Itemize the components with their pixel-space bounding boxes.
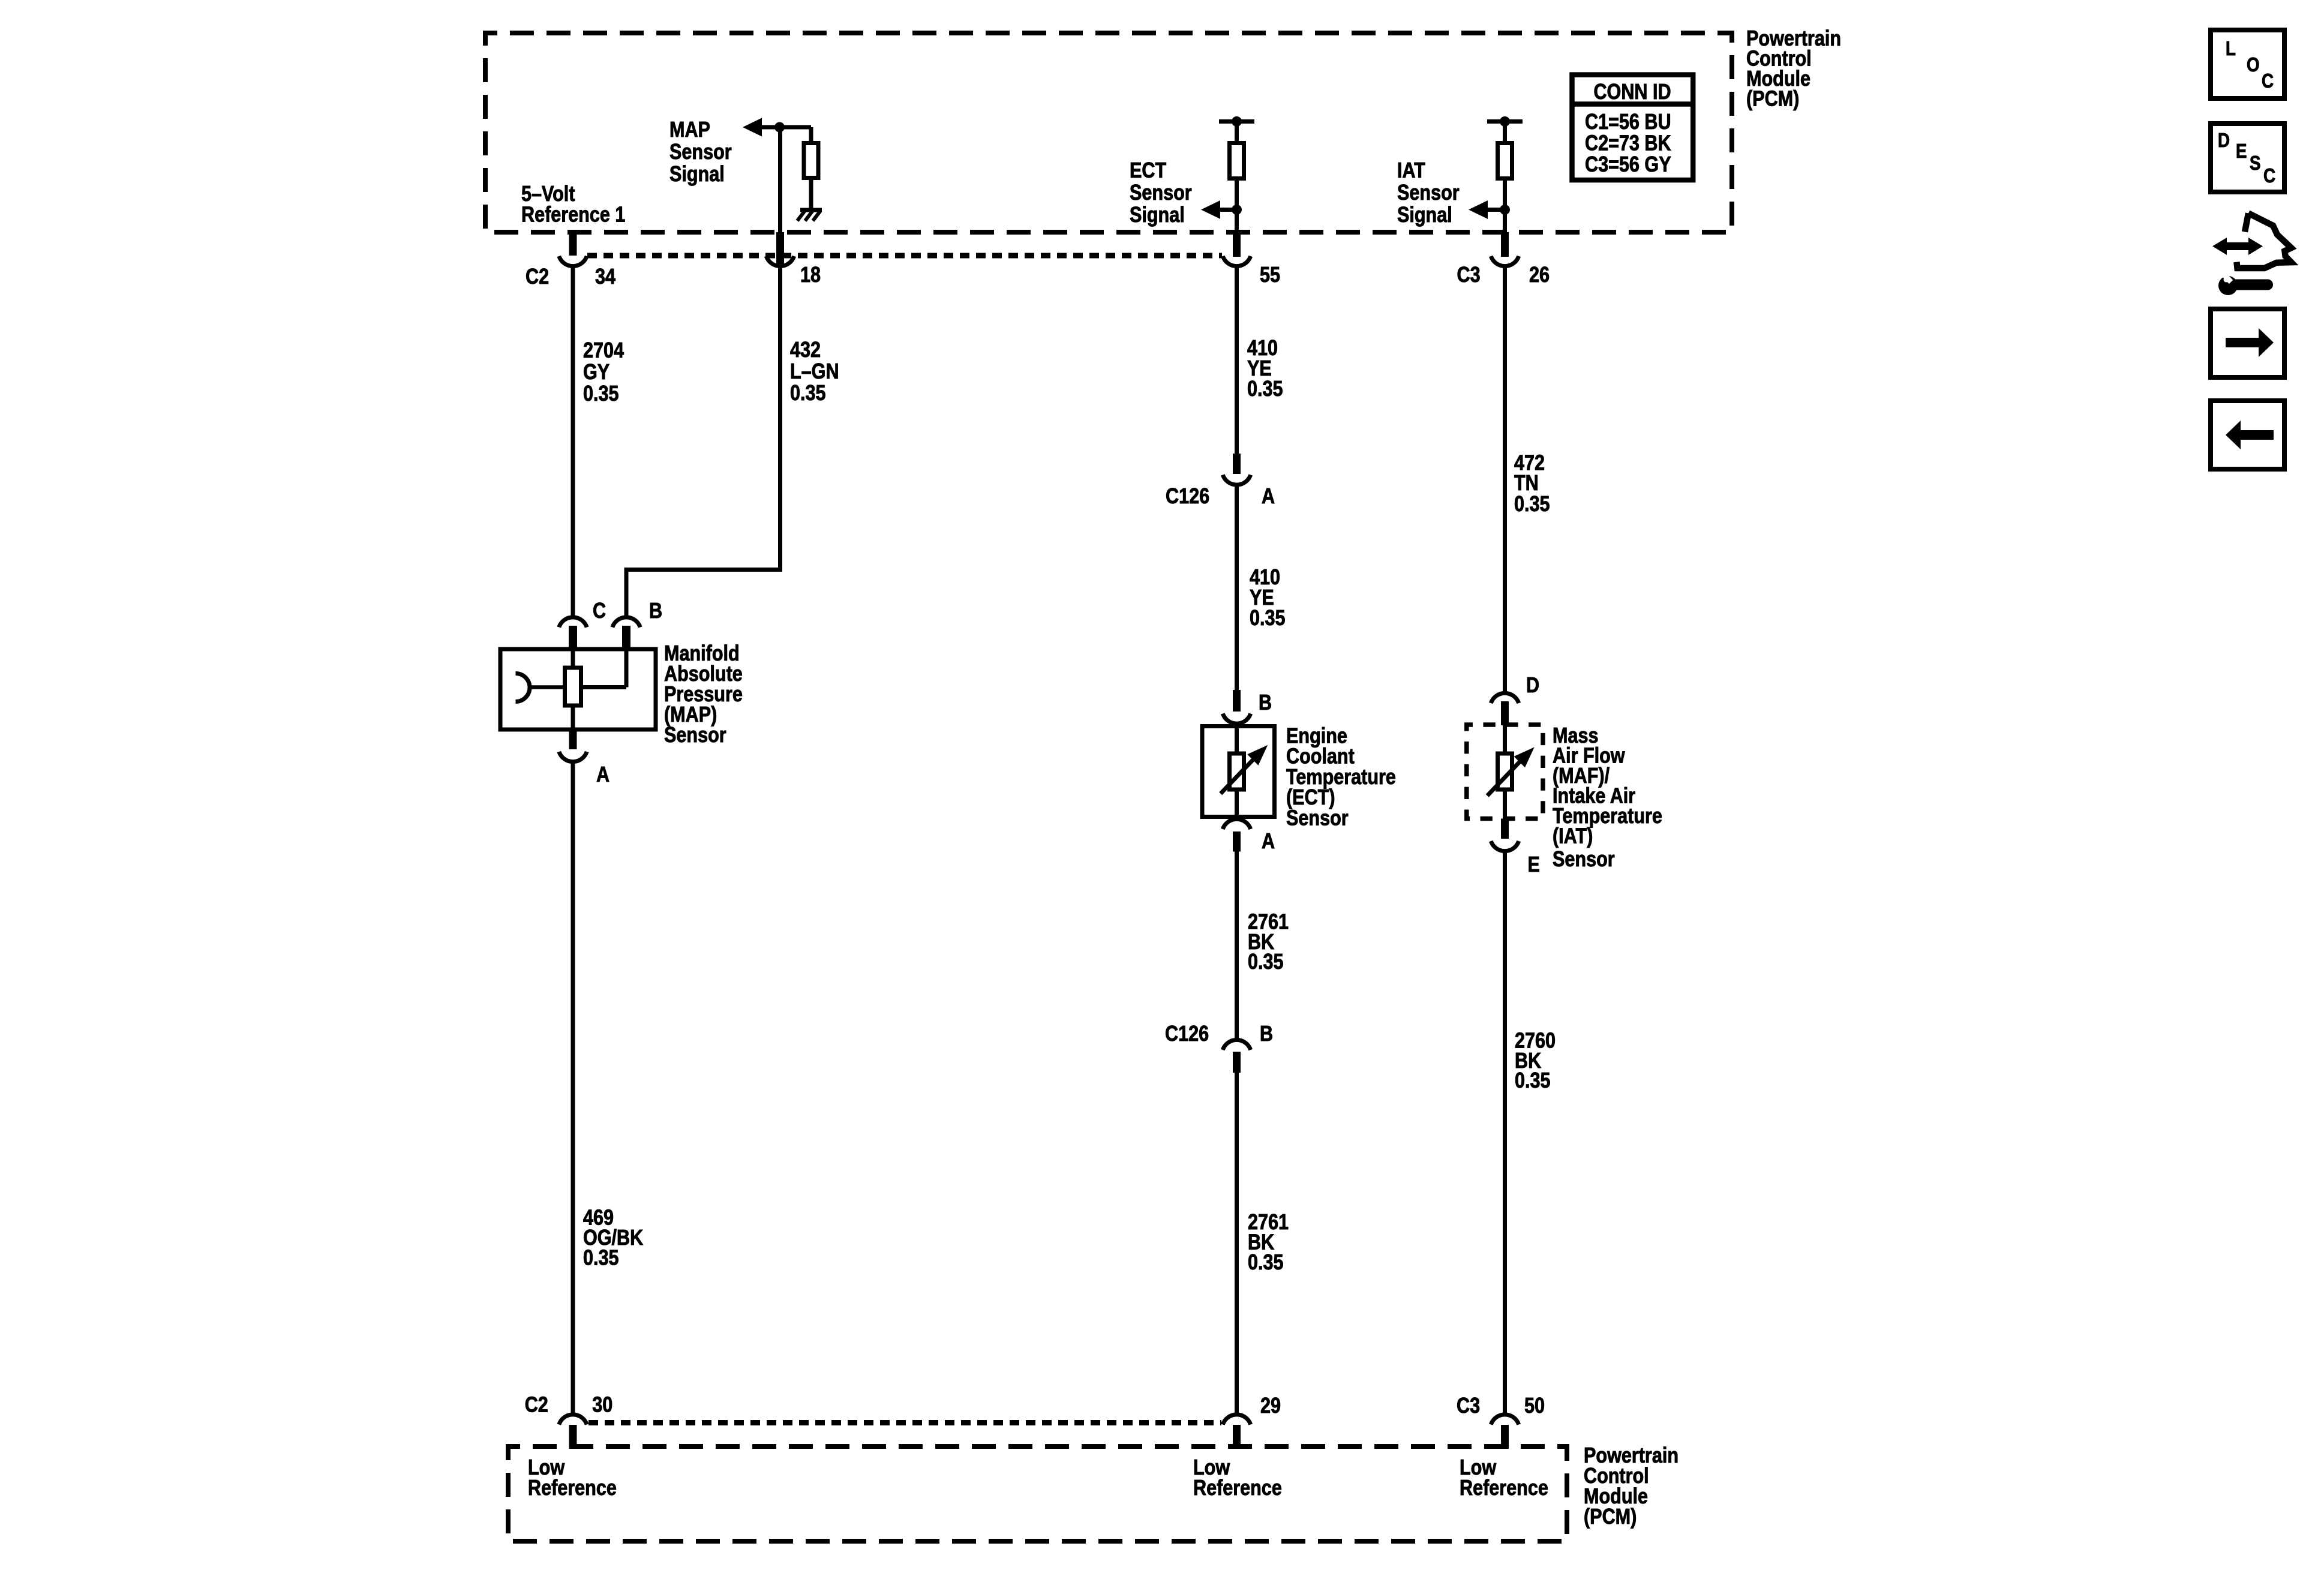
pin MAP-B stub bbox=[622, 626, 630, 651]
wire IAT resistor to pin 26 bbox=[1503, 179, 1507, 233]
svg-text:2704: 2704 bbox=[583, 339, 624, 363]
svg-text:0.35: 0.35 bbox=[583, 1246, 619, 1270]
svg-text:O: O bbox=[2247, 54, 2260, 76]
svg-text:Reference: Reference bbox=[1460, 1476, 1548, 1500]
IAT signal arrow bbox=[1469, 200, 1488, 219]
pin C2-30 stub bbox=[569, 1425, 577, 1449]
pin C3-26 connector bbox=[1491, 256, 1518, 266]
wire MAP signal to pin 18 bbox=[778, 127, 782, 232]
wire port to resistor bbox=[530, 685, 565, 689]
svg-text:Reference 1: Reference 1 bbox=[521, 203, 625, 227]
svg-text:(PCM): (PCM) bbox=[1746, 87, 1799, 111]
connector C126-A stub bbox=[1233, 454, 1241, 474]
icon LOC box bbox=[2211, 30, 2284, 98]
svg-text:D: D bbox=[1526, 674, 1539, 698]
wire 2761 BK (C126 B to pin 29) bbox=[1235, 1073, 1239, 1413]
pin C2-55 connector bbox=[1223, 256, 1250, 266]
wire MAP B internal bbox=[624, 649, 629, 688]
svg-text:B: B bbox=[1260, 1022, 1273, 1046]
pin C2-18 stub bbox=[776, 232, 784, 264]
wire 432 L-GN (pin 18 to MAP B) bbox=[626, 266, 780, 619]
svg-text:29: 29 bbox=[1260, 1394, 1281, 1418]
svg-text:26: 26 bbox=[1529, 263, 1550, 287]
pin C2-30 connector bbox=[559, 1415, 587, 1425]
T-bar ECT pull-up supply bbox=[1219, 119, 1254, 124]
svg-text:34: 34 bbox=[595, 265, 615, 289]
svg-text:Sensor: Sensor bbox=[1553, 848, 1615, 872]
wire 410 YE (pin 55 to C126 A) bbox=[1235, 266, 1239, 455]
pin C3-26 stub bbox=[1501, 232, 1509, 257]
svg-text:D: D bbox=[2218, 130, 2230, 152]
pin MAF-D stub bbox=[1501, 701, 1509, 725]
svg-text:E: E bbox=[2236, 140, 2247, 163]
PCM top box (dashed) bbox=[485, 33, 1732, 232]
svg-text:18: 18 bbox=[800, 263, 821, 287]
pin ECT-B connector bbox=[1223, 714, 1250, 724]
svg-text:0.35: 0.35 bbox=[583, 382, 619, 406]
wire resistor to B internal bbox=[581, 685, 626, 689]
wire IAT supply to resistor bbox=[1503, 122, 1507, 145]
wire 469 OG/BK (MAP A to pin 30) bbox=[571, 762, 575, 1413]
svg-text:0.35: 0.35 bbox=[1247, 377, 1283, 401]
svg-text:C: C bbox=[593, 599, 606, 623]
connector C126-A bbox=[1223, 475, 1250, 485]
connector C126-B stub bbox=[1233, 1052, 1241, 1073]
svg-text:Sensor: Sensor bbox=[669, 140, 732, 164]
svg-text:C126: C126 bbox=[1165, 1022, 1209, 1046]
wire MAP signal horizontal bbox=[759, 125, 811, 130]
svg-text:MAP: MAP bbox=[669, 118, 710, 142]
resistor R-IAT (PCM internal) bbox=[1498, 143, 1512, 179]
junction IAT signal bbox=[1500, 205, 1510, 215]
icon forward box bbox=[2211, 309, 2284, 377]
ECT sensor box bbox=[1202, 727, 1275, 817]
svg-text:C2: C2 bbox=[525, 1393, 548, 1417]
wire ECT supply to resistor bbox=[1235, 122, 1239, 145]
wire 2761 BK (ECT A to C126 B) bbox=[1235, 852, 1239, 1040]
svg-text:E: E bbox=[1528, 853, 1540, 877]
svg-text:0.35: 0.35 bbox=[1514, 493, 1550, 517]
svg-text:0.35: 0.35 bbox=[1515, 1069, 1551, 1093]
svg-text:Reference: Reference bbox=[528, 1476, 617, 1500]
wire MAP C to resistor bbox=[571, 649, 575, 668]
resistor MAP sense element bbox=[565, 668, 581, 706]
resistor R-MAP (PCM internal) bbox=[804, 143, 818, 178]
pin ECT-A connector bbox=[1223, 819, 1250, 829]
pin C2-34 connector bbox=[559, 256, 587, 266]
svg-text:C3: C3 bbox=[1457, 263, 1481, 287]
wire ECT resistor to pin 55 bbox=[1235, 179, 1239, 233]
pin C2-55 stub bbox=[1233, 232, 1241, 257]
wire MAF internal top bbox=[1503, 725, 1507, 754]
pin C2-18 connector bbox=[766, 256, 794, 266]
svg-text:Signal: Signal bbox=[1130, 203, 1185, 227]
svg-text:C3: C3 bbox=[1457, 1394, 1480, 1418]
wire IAT signal horizontal bbox=[1485, 208, 1505, 212]
wire 2760 BK (MAF E to pin 50) bbox=[1503, 851, 1507, 1413]
variable-resistor arrow (ECT) bbox=[1221, 758, 1254, 794]
pin MAP-A stub bbox=[569, 730, 577, 749]
pin C3-50 connector bbox=[1491, 1415, 1518, 1425]
svg-text:GY: GY bbox=[583, 361, 609, 385]
icon wrench bbox=[2218, 276, 2238, 295]
pin ECT-B stub bbox=[1233, 690, 1241, 712]
svg-text:IAT: IAT bbox=[1397, 159, 1425, 183]
ECT signal arrow bbox=[1201, 200, 1220, 219]
wire ECT signal horizontal bbox=[1218, 208, 1237, 212]
svg-text:(IAT): (IAT) bbox=[1553, 824, 1593, 848]
PCM bottom box (dashed) bbox=[508, 1446, 1567, 1541]
icon DESC box bbox=[2211, 124, 2284, 192]
svg-text:0.35: 0.35 bbox=[1248, 950, 1284, 974]
svg-text:A: A bbox=[1262, 830, 1275, 854]
icon wrench/arrows (repair) bbox=[2212, 213, 2291, 268]
svg-text:A: A bbox=[596, 763, 609, 787]
svg-text:C2: C2 bbox=[526, 265, 549, 289]
icon back box bbox=[2211, 401, 2284, 469]
pin MAP-C stub bbox=[569, 626, 577, 651]
pin ECT-A stub bbox=[1233, 831, 1241, 852]
svg-text:S: S bbox=[2250, 152, 2260, 175]
svg-text:30: 30 bbox=[592, 1393, 612, 1417]
svg-text:B: B bbox=[649, 599, 662, 623]
connector C126-B bbox=[1223, 1040, 1250, 1050]
MAF/IAT sensor box (dashed) bbox=[1467, 725, 1543, 819]
junction ECT signal bbox=[1232, 205, 1242, 215]
svg-text:0.35: 0.35 bbox=[1248, 1251, 1284, 1275]
pin MAF-D connector bbox=[1491, 693, 1518, 703]
pin MAF-E connector bbox=[1491, 841, 1518, 851]
svg-text:C3=56 GY: C3=56 GY bbox=[1585, 153, 1671, 177]
svg-text:A: A bbox=[1262, 485, 1275, 509]
wire MAF internal bottom bbox=[1503, 789, 1507, 819]
wire to pull-up resistor R-MAP bbox=[809, 127, 813, 144]
svg-text:Sensor: Sensor bbox=[1130, 181, 1192, 205]
pin C2-29 connector bbox=[1223, 1415, 1250, 1425]
svg-text:55: 55 bbox=[1260, 263, 1280, 287]
pin MAP-B connector bbox=[612, 617, 640, 628]
svg-text:C126: C126 bbox=[1166, 485, 1209, 509]
svg-text:0.35: 0.35 bbox=[790, 382, 826, 406]
svg-text:C2=73 BK: C2=73 BK bbox=[1585, 131, 1671, 155]
pin C3-50 stub bbox=[1501, 1425, 1509, 1449]
svg-text:ECT: ECT bbox=[1130, 159, 1167, 183]
wire ECT internal bottom bbox=[1235, 789, 1239, 817]
wire 410 YE (C126 A to ECT B) bbox=[1235, 485, 1239, 690]
wire resistor to ground bbox=[809, 178, 813, 211]
resistor R-ECT (PCM internal) bbox=[1230, 143, 1244, 179]
svg-text:L: L bbox=[2226, 38, 2236, 60]
svg-text:432: 432 bbox=[790, 338, 821, 362]
svg-text:C1=56 BU: C1=56 BU bbox=[1585, 110, 1671, 134]
svg-text:0.35: 0.35 bbox=[1250, 607, 1286, 631]
ground (PCM internal) bbox=[800, 208, 822, 212]
svg-text:Sensor: Sensor bbox=[1286, 806, 1349, 830]
thermistor ECT bbox=[1230, 754, 1244, 789]
svg-text:Sensor: Sensor bbox=[1397, 181, 1460, 205]
junction MAP signal bbox=[774, 122, 785, 133]
svg-text:(PCM): (PCM) bbox=[1584, 1505, 1637, 1529]
pin MAF-E stub bbox=[1501, 819, 1509, 839]
variable-resistor arrow (IAT) bbox=[1487, 761, 1521, 796]
pin C2-29 stub bbox=[1233, 1425, 1241, 1449]
T-bar IAT pull-up supply bbox=[1487, 119, 1523, 124]
CONN ID table bbox=[1572, 75, 1694, 181]
svg-text:L–GN: L–GN bbox=[790, 360, 839, 384]
svg-text:Signal: Signal bbox=[669, 163, 725, 187]
MAP sensor box bbox=[500, 649, 656, 730]
MAP pressure port symbol bbox=[516, 674, 530, 702]
MAP signal arrow bbox=[743, 118, 762, 137]
svg-text:C: C bbox=[2263, 165, 2275, 187]
wire MAP resistor to pin A bbox=[571, 706, 575, 730]
svg-text:Reference: Reference bbox=[1193, 1476, 1282, 1500]
pin C2-34 stub bbox=[569, 232, 577, 256]
svg-text:Signal: Signal bbox=[1397, 203, 1452, 227]
connector row C2 dotted line bbox=[587, 253, 1222, 259]
pin MAP-C connector bbox=[559, 617, 587, 628]
svg-text:50: 50 bbox=[1524, 1394, 1545, 1418]
wire ECT internal top bbox=[1235, 727, 1239, 755]
svg-text:C: C bbox=[2262, 70, 2274, 92]
connector row dotted line (bottom) bbox=[588, 1420, 1221, 1425]
svg-text:Sensor: Sensor bbox=[664, 724, 726, 748]
thermistor IAT bbox=[1498, 754, 1512, 789]
wire 472 TN (pin 26 to MAF D) bbox=[1503, 266, 1507, 695]
svg-text:B: B bbox=[1259, 691, 1272, 715]
wire 2704 GY (pin 34 to MAP C) bbox=[571, 266, 575, 619]
pin MAP-A connector bbox=[559, 752, 587, 762]
svg-text:CONN ID: CONN ID bbox=[1593, 80, 1671, 104]
